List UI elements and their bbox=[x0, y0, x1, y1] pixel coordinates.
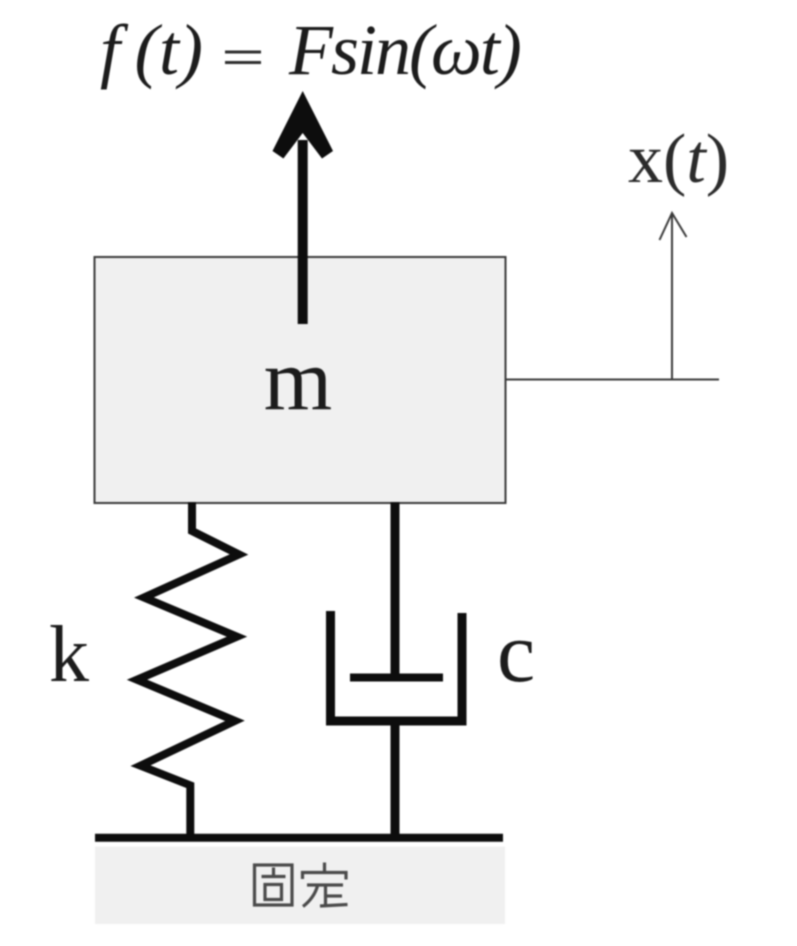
displacement arrow x(t) bbox=[671, 214, 673, 380]
svg-text:m: m bbox=[264, 332, 332, 429]
force arrowhead bbox=[273, 91, 334, 159]
label kanji TEI (fixed) char 2 bbox=[303, 863, 348, 907]
wire horizontal reference line bbox=[506, 379, 720, 381]
label kanji GU (fixed) char 1 bbox=[255, 865, 293, 905]
svg-text:t: t bbox=[159, 10, 181, 90]
damper rod lower bbox=[391, 721, 400, 838]
svg-text:x(t): x(t) bbox=[628, 121, 729, 198]
mass m body bbox=[95, 257, 506, 503]
spring k bbox=[137, 502, 239, 838]
svg-text:Fsin(ωt): Fsin(ωt) bbox=[288, 10, 520, 90]
svg-text:): ) bbox=[175, 10, 203, 90]
damper piston plate bbox=[350, 674, 443, 682]
damper rod upper bbox=[391, 502, 400, 677]
svg-text:k: k bbox=[49, 611, 89, 699]
svg-text:c: c bbox=[497, 604, 535, 700]
ground line bbox=[95, 834, 503, 842]
force arrow shaft bbox=[298, 140, 308, 324]
ground hatch block bbox=[95, 847, 505, 925]
damper cylinder cup bbox=[331, 611, 463, 721]
